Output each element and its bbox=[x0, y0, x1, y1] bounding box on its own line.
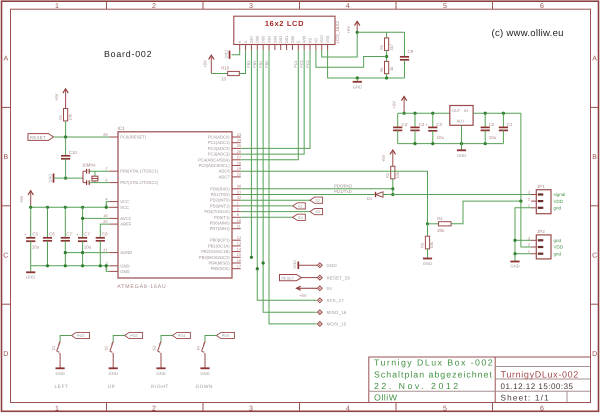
svg-text:R4: R4 bbox=[437, 216, 443, 221]
resistor R10 bbox=[228, 71, 240, 75]
wire C2 bottom bbox=[484, 130, 486, 143]
svg-text:D1: D1 bbox=[367, 196, 373, 201]
svg-text:C: C bbox=[3, 253, 8, 260]
svg-text:VO: VO bbox=[313, 38, 318, 44]
capacitor C4 bbox=[410, 126, 419, 128]
junction divider node bbox=[426, 222, 429, 225]
svg-text:26: 26 bbox=[237, 149, 241, 154]
crystal Q1 16MHz with load caps bbox=[82, 171, 84, 182]
svg-text:SCK_17: SCK_17 bbox=[327, 298, 345, 303]
svg-text:16MHz: 16MHz bbox=[82, 163, 96, 168]
junction C1 top bbox=[502, 112, 505, 115]
svg-text:C10: C10 bbox=[69, 150, 78, 155]
power 5V arrow (pointing left) bbox=[297, 286, 301, 290]
svg-text:19: 19 bbox=[237, 166, 241, 171]
wire stub rail to R5 top bbox=[386, 32, 388, 38]
wire LCD DB6 to SCK net bbox=[257, 50, 316, 300]
junction DB5/PB4 bbox=[262, 261, 265, 264]
junction JP2 pin1 bbox=[513, 252, 516, 255]
resistor R4 bbox=[428, 223, 439, 225]
svg-text:C2: C2 bbox=[489, 122, 495, 127]
svg-text:S3: S3 bbox=[151, 346, 156, 351]
svg-text:4: 4 bbox=[346, 405, 350, 412]
svg-text:Schaltplan abgezeichnet: Schaltplan abgezeichnet bbox=[374, 369, 493, 379]
junction AGND C7' bbox=[64, 251, 67, 254]
wire stub rail to C9 top bbox=[404, 32, 406, 56]
wire LCD VSS to ground rail bbox=[328, 50, 405, 78]
svg-text:D: D bbox=[3, 351, 8, 358]
wire AVCC to C7 branch bbox=[83, 217, 110, 219]
svg-text:3: 3 bbox=[249, 3, 253, 10]
svg-text:18: 18 bbox=[103, 213, 107, 218]
ground symbol below JP2 bbox=[514, 254, 516, 262]
wire C1 bottom to ground rail bbox=[502, 130, 504, 143]
wire C6 top bbox=[47, 207, 49, 238]
wire JP2 pin3 gnd bbox=[515, 239, 531, 241]
net flag S2 bbox=[310, 197, 323, 203]
connector JP2 box bbox=[536, 235, 551, 259]
wire LCD DB5 to MISO net bbox=[263, 50, 317, 312]
svg-text:+5V: +5V bbox=[202, 60, 207, 68]
svg-text:1: 1 bbox=[528, 249, 530, 254]
IC1 right pin stubs bbox=[232, 136, 241, 138]
capacitor C9 bbox=[400, 56, 409, 58]
ground symbol switch S1 bbox=[56, 367, 65, 369]
svg-text:+5V: +5V bbox=[299, 293, 307, 298]
junction reset/R1 bbox=[64, 135, 67, 138]
ground symbol switch S3 bbox=[156, 367, 165, 369]
svg-text:R5: R5 bbox=[379, 45, 384, 50]
LCD module box bbox=[234, 16, 335, 44]
svg-text:21: 21 bbox=[103, 247, 107, 252]
power +5V arrow for LCD backlight bbox=[209, 55, 214, 59]
svg-text:PB7(XTAL2/TOSC2): PB7(XTAL2/TOSC2) bbox=[120, 180, 158, 185]
wire flag to switch S1 bbox=[60, 336, 71, 342]
wire ADC6 battery sense bbox=[241, 171, 428, 224]
wire flag to switch S4 bbox=[205, 336, 216, 342]
wire C3 bottom bbox=[432, 131, 434, 144]
capacitor C10 bbox=[61, 155, 70, 157]
svg-text:DB2: DB2 bbox=[278, 36, 283, 44]
svg-text:1k: 1k bbox=[389, 67, 394, 71]
power +5V arrow for RxD pullup bbox=[390, 150, 395, 154]
svg-text:GND: GND bbox=[353, 84, 362, 89]
junction C4 top bbox=[413, 112, 416, 115]
svg-text:PD3(INT1): PD3(INT1) bbox=[210, 203, 230, 208]
junction C2 bottom bbox=[484, 142, 487, 145]
frame column ticks top bbox=[106, 1, 108, 9]
switch S2 bbox=[110, 342, 113, 353]
svg-text:signal: signal bbox=[554, 192, 566, 197]
svg-text:PD4(T0/XCK): PD4(T0/XCK) bbox=[204, 209, 230, 214]
voltage regulator IC2 box bbox=[450, 106, 473, 126]
resistor R3 bbox=[427, 224, 429, 236]
capacitor C7 (polarized) bbox=[78, 237, 87, 239]
svg-text:AVCC: AVCC bbox=[120, 216, 131, 221]
svg-text:C9: C9 bbox=[408, 49, 414, 54]
svg-text:GND: GND bbox=[510, 264, 519, 269]
svg-text:3: 3 bbox=[528, 190, 530, 195]
ground symbol near LCD divider bbox=[356, 78, 358, 82]
svg-text:gnd: gnd bbox=[554, 238, 562, 243]
svg-text:RIGHT: RIGHT bbox=[151, 384, 169, 390]
svg-text:2: 2 bbox=[528, 196, 530, 201]
svg-text:UP: UP bbox=[108, 384, 116, 390]
svg-text:13: 13 bbox=[237, 241, 241, 246]
junction gnd tap bbox=[356, 76, 359, 79]
svg-text:B: B bbox=[3, 154, 8, 161]
wire PD3 to S1 flag bbox=[241, 205, 293, 207]
svg-text:PB2(SS/OC1B): PB2(SS/OC1B) bbox=[201, 249, 230, 254]
svg-text:C: C bbox=[592, 253, 597, 260]
net flag S4 bbox=[293, 214, 306, 220]
svg-text:DB0: DB0 bbox=[290, 35, 295, 43]
pin marker MOSI_15 bbox=[317, 322, 322, 327]
svg-text:Turnigy DLux Box -002: Turnigy DLux Box -002 bbox=[374, 357, 494, 367]
svg-text:1: 1 bbox=[528, 203, 530, 208]
svg-text:PC3: PC3 bbox=[299, 60, 304, 68]
microcontroller IC1 ATMEGA8 box bbox=[118, 132, 232, 278]
wire LCD R/W to PC3 bbox=[241, 50, 304, 154]
junction R2/PD1 diode node bbox=[391, 193, 394, 196]
svg-text:MOSI_15: MOSI_15 bbox=[327, 322, 347, 327]
title block outline bbox=[369, 357, 591, 403]
svg-text:GND: GND bbox=[423, 261, 432, 266]
junction C3 bottom bbox=[431, 142, 434, 145]
wire gnd symbol to node bbox=[54, 177, 66, 179]
svg-text:32: 32 bbox=[237, 195, 241, 200]
svg-text:10u: 10u bbox=[32, 244, 40, 249]
capacitor C5 (polarized) bbox=[26, 237, 35, 239]
svg-text:+5V: +5V bbox=[391, 101, 396, 109]
junction R2/PD0 bbox=[391, 187, 394, 190]
svg-text:PC1(ADC1): PC1(ADC1) bbox=[208, 140, 230, 145]
IC1 left pin stubs bbox=[109, 136, 118, 138]
svg-text:2: 2 bbox=[528, 242, 530, 247]
power +5V arrow near LCD VDD bbox=[355, 21, 360, 25]
svg-text:16: 16 bbox=[237, 258, 241, 263]
svg-text:1: 1 bbox=[55, 3, 59, 10]
wire AREF to C8 bbox=[100, 224, 109, 238]
wire R4 to battery VDD bbox=[451, 201, 521, 224]
svg-text:10: 10 bbox=[221, 76, 226, 81]
junction C5 top bbox=[29, 206, 32, 209]
junction C6 top bbox=[46, 206, 49, 209]
regulator output rail bbox=[398, 112, 450, 114]
junction JP2 pin3 bbox=[513, 239, 516, 242]
wire LCD E to PC4 bbox=[241, 50, 299, 160]
wire gnd to pin marker bbox=[298, 264, 317, 266]
svg-text:8: 8 bbox=[105, 177, 107, 182]
wire C8 bottom bbox=[99, 241, 101, 266]
svg-text:ATMEGA8-16AU: ATMEGA8-16AU bbox=[117, 284, 166, 290]
svg-text:PB5: PB5 bbox=[252, 61, 257, 68]
net flag PD2 for switch S2 bbox=[125, 332, 143, 338]
wire R5 to R6 bbox=[386, 50, 388, 61]
svg-text:C7': C7' bbox=[66, 232, 73, 237]
svg-text:PC6(/RESET): PC6(/RESET) bbox=[120, 135, 146, 140]
junction VCC rail bbox=[105, 206, 108, 209]
svg-text:S3: S3 bbox=[315, 209, 320, 214]
diode D1 bbox=[375, 192, 377, 197]
junction C7 top bbox=[81, 206, 84, 209]
svg-text:JP1: JP1 bbox=[537, 184, 545, 189]
svg-text:GND: GND bbox=[292, 260, 297, 269]
svg-text:DB6: DB6 bbox=[255, 36, 260, 44]
svg-text:gnd: gnd bbox=[554, 251, 562, 256]
svg-text:2: 2 bbox=[237, 206, 239, 211]
svg-text:A: A bbox=[3, 56, 8, 63]
wire C7 top bbox=[82, 207, 84, 238]
svg-text:4: 4 bbox=[346, 3, 350, 10]
wire XTAL1 to IC1 PB6 bbox=[89, 170, 109, 172]
svg-text:AREF: AREF bbox=[120, 222, 132, 227]
svg-text:+5V: +5V bbox=[346, 26, 351, 34]
svg-text:PD3: PD3 bbox=[77, 333, 85, 338]
wire AGND row bbox=[65, 252, 109, 254]
title block sheet sub-divider bbox=[566, 391, 568, 402]
wire C2 top bbox=[484, 113, 486, 127]
svg-text:+5V: +5V bbox=[19, 195, 24, 203]
reset flag at ISP bbox=[280, 275, 302, 281]
frame column ticks bottom bbox=[106, 403, 108, 412]
capacitor C4' bbox=[393, 126, 402, 128]
junction +5V VDD rail bbox=[356, 31, 359, 34]
svg-text:RESET: RESET bbox=[30, 135, 46, 140]
svg-text:PC0(ADC0): PC0(ADC0) bbox=[208, 135, 230, 140]
svg-text:VCC: VCC bbox=[120, 205, 129, 210]
wire R3 to ground bbox=[427, 249, 429, 259]
wire PD5 to S4 flag bbox=[241, 216, 293, 218]
ground rail under cap bank bbox=[31, 265, 110, 267]
svg-text:ADC7: ADC7 bbox=[219, 174, 231, 179]
JP1 pin 2 VDD bbox=[531, 200, 536, 202]
wire PD4 to S3 flag bbox=[241, 211, 310, 213]
svg-text:PC5(ADC5/SCL): PC5(ADC5/SCL) bbox=[199, 163, 231, 168]
svg-text:GND: GND bbox=[26, 275, 35, 280]
resistor R5 bbox=[385, 38, 389, 51]
ground symbol below cap bank bbox=[30, 266, 32, 273]
capacitor C7' bbox=[61, 237, 70, 239]
junction R5/R6 divider to LCD VO bbox=[385, 55, 388, 58]
svg-text:5: 5 bbox=[443, 3, 447, 10]
wire ground rail to IC1 GND pin 5 bbox=[106, 266, 109, 272]
ground symbol switch S2 bbox=[109, 367, 118, 369]
svg-text:3: 3 bbox=[249, 405, 253, 412]
svg-text:RESET_29: RESET_29 bbox=[327, 275, 351, 280]
svg-text:TurnigyDLux-002: TurnigyDLux-002 bbox=[501, 369, 579, 379]
regulator ground rail bbox=[398, 143, 504, 145]
wire flag to switch S2 bbox=[113, 336, 124, 342]
svg-text:VDD: VDD bbox=[554, 245, 564, 250]
capacitor C1 bbox=[499, 126, 508, 128]
svg-text:DB5: DB5 bbox=[261, 36, 266, 44]
wire C4' top bbox=[397, 113, 399, 127]
junction DB7/PB3 bbox=[250, 256, 253, 259]
svg-text:PD7(AIN1): PD7(AIN1) bbox=[210, 226, 231, 231]
wire C10 to gnd node bbox=[65, 159, 67, 178]
wire battery VDD vertical to JP connectors bbox=[520, 113, 522, 201]
switch S3 bbox=[158, 342, 161, 353]
wire PD0 RxD bbox=[241, 188, 393, 190]
svg-text:PC2(ADC2): PC2(ADC2) bbox=[208, 146, 230, 151]
resistor R1 bbox=[64, 109, 68, 121]
junction gnd rail bbox=[105, 264, 108, 267]
pin marker RESET_29 bbox=[317, 275, 322, 280]
svg-text:PB6(XTAL1/TOSC1): PB6(XTAL1/TOSC1) bbox=[120, 169, 158, 174]
svg-text:B: B bbox=[592, 154, 597, 161]
wire R2 to serial node bbox=[392, 179, 394, 195]
resistor R2 bbox=[391, 166, 395, 179]
junction C4 bottom bbox=[413, 142, 416, 145]
pin marker SCK_17 bbox=[317, 298, 322, 303]
wire diode to JP1 signal bbox=[383, 194, 531, 196]
svg-text:27: 27 bbox=[237, 155, 241, 160]
svg-text:DB7: DB7 bbox=[249, 36, 254, 44]
svg-text:S4: S4 bbox=[298, 215, 304, 220]
wire LCD DB7 to PB3 net bbox=[250, 50, 252, 257]
wire JP1 gnd vertical bbox=[515, 208, 531, 254]
ground symbol at LCD K (rotated) bbox=[229, 51, 231, 59]
svg-text:RS: RS bbox=[307, 37, 312, 43]
svg-text:R10: R10 bbox=[221, 66, 230, 71]
svg-text:DB4: DB4 bbox=[266, 35, 271, 43]
svg-text:VDD: VDD bbox=[319, 35, 324, 43]
ground symbol for ISP header (rotated) bbox=[297, 262, 299, 270]
title block row lines bbox=[495, 366, 590, 368]
wire regulator IN to battery rail bbox=[473, 112, 521, 114]
svg-text:PB0: PB0 bbox=[264, 60, 269, 68]
svg-text:10u: 10u bbox=[489, 135, 497, 140]
svg-text:17: 17 bbox=[237, 264, 241, 269]
junction C8 bottom bbox=[99, 264, 102, 267]
svg-text:S1: S1 bbox=[51, 346, 56, 351]
svg-text:PB3(MOSI/OC2): PB3(MOSI/OC2) bbox=[199, 255, 230, 260]
wire RESET flag to IC1 PC6 bbox=[54, 136, 110, 138]
pin marker 5V bbox=[317, 286, 322, 291]
wire battery VDD to JP2 pin 2 bbox=[521, 201, 531, 247]
svg-text:11: 11 bbox=[237, 224, 241, 229]
svg-text:RESET: RESET bbox=[281, 275, 295, 280]
wire regulator ADJ to ground bbox=[461, 125, 463, 150]
svg-text:16x2 LCD: 16x2 LCD bbox=[265, 19, 304, 28]
power +5V arrow for VCC rail bbox=[28, 191, 33, 195]
wire C1 top bbox=[502, 113, 504, 127]
svg-text:+5V: +5V bbox=[381, 154, 386, 162]
svg-text:A: A bbox=[243, 40, 248, 43]
wire PD1 TxD to diode bbox=[241, 194, 375, 196]
JP2 pin 2 VDD bbox=[531, 246, 536, 248]
svg-text:D: D bbox=[592, 351, 597, 358]
svg-text:S2: S2 bbox=[104, 346, 109, 351]
svg-text:C6: C6 bbox=[49, 232, 55, 237]
wire R1 to reset net bbox=[65, 121, 67, 137]
wire C4' bottom to ground rail bbox=[397, 130, 399, 143]
wire +5V to R10 bbox=[211, 73, 227, 75]
wire C5 bottom bbox=[30, 241, 32, 266]
svg-text:PD0/RxD: PD0/RxD bbox=[334, 183, 352, 188]
svg-text:PD2(INT0): PD2(INT0) bbox=[210, 198, 230, 203]
svg-text:VSS: VSS bbox=[325, 35, 330, 43]
JP2 pin 3 gnd bbox=[531, 239, 536, 241]
wire C7' top bbox=[64, 207, 66, 238]
svg-text:AGND: AGND bbox=[120, 250, 132, 255]
title block divider vertical bbox=[494, 357, 496, 403]
svg-text:31: 31 bbox=[237, 189, 241, 194]
crystal body bbox=[94, 171, 96, 176]
wire C7' bottom bbox=[64, 241, 66, 266]
ground symbol switch S4 bbox=[200, 367, 209, 369]
svg-text:OlliW: OlliW bbox=[374, 393, 398, 403]
svg-text:GND: GND bbox=[200, 371, 209, 376]
junction DB6/PB5 bbox=[256, 267, 259, 270]
svg-text:GND: GND bbox=[47, 174, 52, 183]
wire LCD VDD to +5V bbox=[322, 32, 357, 57]
svg-text:PC4(ADC4/SDA): PC4(ADC4/SDA) bbox=[198, 157, 230, 162]
capacitor C2 bbox=[481, 126, 490, 128]
junction C7' bottom bbox=[64, 264, 67, 267]
ground symbol below R3 bbox=[423, 258, 432, 260]
wire switch S2 to ground bbox=[112, 353, 114, 368]
svg-text:DOWN: DOWN bbox=[196, 384, 214, 390]
svg-text:PD5(T1): PD5(T1) bbox=[214, 215, 230, 220]
power +5V arrow at regulator output bbox=[401, 96, 406, 100]
svg-text:Sheet: 1/1: Sheet: 1/1 bbox=[501, 394, 550, 403]
net flag PD5 for switch S4 bbox=[216, 332, 234, 338]
svg-text:PD2: PD2 bbox=[130, 333, 138, 338]
svg-text:DB3: DB3 bbox=[272, 36, 277, 44]
svg-text:R2: R2 bbox=[385, 173, 390, 178]
wire switch S3 to ground bbox=[160, 353, 162, 368]
VCC rail bbox=[31, 206, 110, 208]
svg-text:20k: 20k bbox=[437, 228, 445, 233]
svg-text:PD4: PD4 bbox=[178, 333, 186, 338]
svg-text:PB1(OC1A): PB1(OC1A) bbox=[208, 243, 230, 248]
svg-text:E: E bbox=[296, 40, 301, 43]
wire PD2 to S2 flag bbox=[241, 199, 310, 201]
wire +5V rail to R5 and C9 bbox=[357, 31, 404, 33]
svg-text:GND: GND bbox=[120, 263, 129, 268]
svg-text:10k: 10k bbox=[429, 242, 434, 248]
wire C4 bottom bbox=[414, 130, 416, 143]
svg-text:PD5: PD5 bbox=[222, 333, 230, 338]
svg-text:PD1(TXD): PD1(TXD) bbox=[211, 192, 231, 197]
svg-text:2: 2 bbox=[152, 3, 156, 10]
svg-text:6: 6 bbox=[540, 405, 544, 412]
svg-text:10u: 10u bbox=[84, 244, 92, 249]
svg-text:3: 3 bbox=[528, 236, 530, 241]
wire LCD RS to PC2 bbox=[241, 50, 310, 148]
junction C7' top bbox=[64, 206, 67, 209]
pin marker GND bbox=[317, 263, 322, 268]
svg-text:PC4: PC4 bbox=[293, 60, 298, 68]
JP1 pin 1 gnd bbox=[531, 207, 536, 209]
ground symbol at reset (rotated) bbox=[53, 174, 55, 183]
svg-text:PD6(AIN0): PD6(AIN0) bbox=[210, 221, 231, 226]
wire C7 bottom bbox=[82, 241, 84, 266]
svg-text:PB4(MISO): PB4(MISO) bbox=[209, 261, 231, 266]
svg-text:01.12.12 15:00:35: 01.12.12 15:00:35 bbox=[501, 382, 574, 391]
svg-text:23: 23 bbox=[237, 132, 241, 137]
junction AGND C7 bbox=[81, 251, 84, 254]
svg-text:22. Nov. 2012: 22. Nov. 2012 bbox=[374, 381, 461, 391]
svg-text:2: 2 bbox=[152, 405, 156, 412]
svg-text:PC2: PC2 bbox=[305, 60, 310, 68]
svg-text:ADC6: ADC6 bbox=[219, 169, 231, 174]
svg-text:28: 28 bbox=[237, 160, 241, 165]
svg-text:12: 12 bbox=[237, 235, 241, 240]
connector JP1 box bbox=[536, 190, 551, 214]
